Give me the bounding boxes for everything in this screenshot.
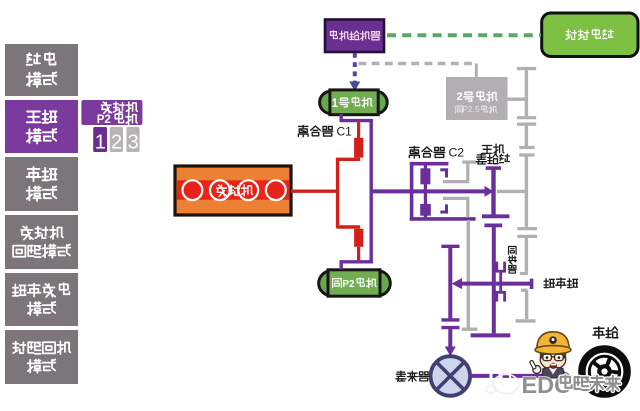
clutch C1 plates and engine-side links (red) <box>337 121 363 262</box>
motor controller box 电机控制器 <box>325 20 384 53</box>
step box 3 <box>126 127 139 154</box>
synchronizer 同步器 forks <box>495 262 506 302</box>
wire: purple motor shaft around C1 <box>340 114 373 269</box>
motor 2 box 2号电机 <box>446 77 508 120</box>
mode box 发动机直驱模式 <box>5 215 78 269</box>
faint watermark doodle <box>486 375 519 394</box>
wire: gray dashed link to motor 2 <box>359 64 477 78</box>
wheel 车轮 <box>582 349 627 394</box>
label 一档齿轮组 <box>476 144 509 164</box>
mode box 动能回收模式 <box>5 330 78 384</box>
gray idler shaft <box>462 220 478 329</box>
intermediate shaft below first gear <box>471 225 511 335</box>
wire: purple main input shaft with arrow <box>370 186 494 197</box>
svg-text:C2: C2 <box>449 146 465 160</box>
label 差速器 <box>396 371 429 382</box>
worker mascot <box>529 332 571 378</box>
motor M1 1号电机 <box>320 90 388 115</box>
step box 2 <box>110 127 123 154</box>
mode box 串联模式 <box>5 157 78 211</box>
mode box 驻车发电模式 <box>5 273 78 326</box>
motor M2 即P2电机 <box>319 270 391 296</box>
svg-text:P2: P2 <box>342 279 355 290</box>
svg-text:1: 1 <box>95 132 106 154</box>
step box 1 (purple) <box>93 127 107 154</box>
svg-text:P2: P2 <box>97 114 111 126</box>
label 离合器 C2 <box>409 146 464 160</box>
label box 发动机P2电机 <box>81 100 142 126</box>
mode box 并联模式 (highlighted) <box>5 100 78 153</box>
mode box 纯电模式 <box>5 44 78 96</box>
wire: green dashed HV link controller-battery <box>387 33 541 37</box>
svg-text:2: 2 <box>111 132 122 154</box>
label 离合器 C1 <box>298 124 352 138</box>
engine 发动机 <box>175 166 291 215</box>
final drive shaft with gear bars <box>441 246 459 356</box>
wire: output shaft 输出轴 with left arrow <box>452 278 532 289</box>
svg-text:2: 2 <box>456 91 462 103</box>
wire: purple axle differential to wheel <box>470 370 572 381</box>
svg-text:1: 1 <box>332 98 339 110</box>
wire: gray link gear to motor2 shaft <box>497 190 526 193</box>
label 输出轴 <box>544 278 578 288</box>
first gear set (purple I-beam) <box>482 168 509 225</box>
gray motor2 shaft and gear bars <box>508 69 538 321</box>
differential 差速器 <box>431 356 471 396</box>
clutch C2 (purple drum) <box>410 162 476 221</box>
svg-text:3: 3 <box>128 132 139 154</box>
svg-text:P2.5: P2.5 <box>462 104 480 114</box>
wire: blue dashed arrow controller to motor 1 <box>349 53 360 91</box>
label 车轮 <box>593 327 618 339</box>
wire: red engine output shaft <box>291 189 339 192</box>
power battery box 动力电池 <box>542 13 638 57</box>
svg-text:C1: C1 <box>337 124 353 138</box>
label 同步器 (vertical) <box>508 247 516 274</box>
clutch C2 gray housing brackets <box>443 162 476 217</box>
watermark EDC电驱未来 <box>522 372 621 398</box>
